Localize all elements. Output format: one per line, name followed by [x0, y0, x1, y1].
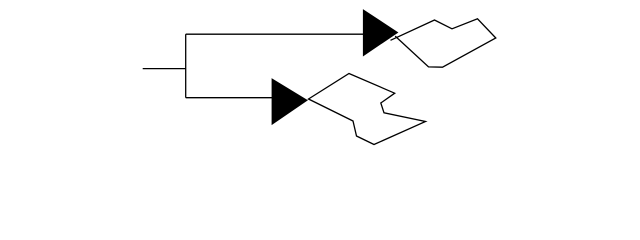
wire input stub — [143, 68, 186, 70]
buffer U1 (top solid triangle) — [363, 10, 397, 56]
wire vertical branch — [185, 34, 187, 97]
wire bottom branch — [186, 97, 272, 99]
buffer U2 (bottom solid triangle) — [272, 79, 307, 124]
node shape attached to U2 (irregular polygon outline) — [309, 74, 426, 145]
wire top branch — [186, 33, 364, 35]
node shape attached to U1 (irregular polygon outline) — [391, 19, 496, 67]
